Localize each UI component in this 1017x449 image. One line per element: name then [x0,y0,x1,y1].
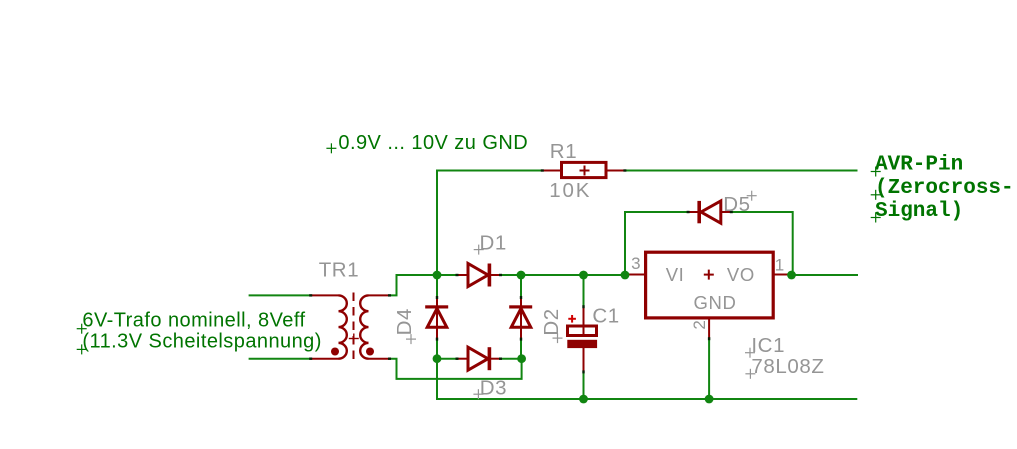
diode D3 cathode bar [488,347,492,370]
wire transformer primary bottom lead [249,358,311,360]
diode D5 triangle [701,201,721,223]
svg-text:10K: 10K [549,179,591,202]
capacitor C1 bottom plate [567,340,597,348]
svg-text:IC1: IC1 [751,334,785,357]
svg-text:(11.3V Scheitelspannung): (11.3V Scheitelspannung) [82,330,321,352]
label D3 origin cross [473,389,483,399]
annotation cross 3 [77,344,87,354]
svg-text:TR1: TR1 [319,259,360,282]
transformer TR1 secondary pin bottom [369,358,390,360]
junction C1 top node [579,271,588,280]
wire D2 column lower green [520,339,522,359]
wire ground rail [436,398,857,400]
wire D3 row right segment [500,358,522,360]
wire D3 row left segment [437,358,458,360]
wire node D down to ground rail [436,359,438,400]
label IC1 origin cross [745,348,755,358]
pin connection ticks [309,169,733,373]
junction node C [517,271,526,280]
diode D5 cathode bar [697,201,701,223]
svg-text:D5: D5 [723,193,750,216]
wire D5 loop left [625,212,688,275]
transformer TR1 primary pin bottom [310,358,338,360]
IC1 pin 3 lead [626,274,646,276]
diode D2 lead through [520,298,522,339]
transformer TR1 core dashed line [353,293,355,362]
op-amp IC1 body [646,252,774,318]
svg-text:R1: R1 [550,140,577,163]
wire D1 row left segment [437,274,458,276]
wire C1 top column [583,275,585,307]
resistor R1 body [562,162,607,177]
svg-text:D2: D2 [540,308,563,335]
wire D4 column upper green [436,275,438,298]
transformer TR1 primary pin top [310,294,338,296]
diode D1 cathode bar [488,264,492,287]
diode D4 triangle [427,309,447,328]
wire IC ground pin down [708,339,710,400]
wire transformer secondary bottom to bridge node B [389,359,521,379]
junction node A [433,271,442,280]
svg-text:C1: C1 [592,305,619,328]
net label cross 2 [871,190,881,200]
svg-text:78L08Z: 78L08Z [751,355,824,378]
junction node D [433,354,442,363]
svg-text:6V-Trafo nominell, 8Veff: 6V-Trafo nominell, 8Veff [82,310,305,332]
net label cross 3 [871,213,881,223]
svg-text:3: 3 [631,254,641,273]
label D2 origin cross [553,333,563,343]
wire D2 column upper green [520,275,522,298]
IC1 pin 1 lead [773,274,791,276]
diode D1 left lead [457,274,468,276]
svg-text:0.9V ... 10V zu GND: 0.9V ... 10V zu GND [338,132,528,154]
diode D2 cathode bar [509,305,532,308]
junction D5 left node [621,271,630,280]
transformer TR1 origin cross [349,334,359,344]
diode D3 triangle [468,347,488,370]
value 78L08Z origin cross [745,369,755,379]
label D5 origin cross [747,191,757,201]
capacitor C1 top plate [568,326,597,336]
wire D4 column lower green [436,339,438,359]
diode D5 right lead [721,211,731,213]
svg-text:VI: VI [666,264,685,285]
svg-text:D3: D3 [480,377,507,400]
svg-text:D4: D4 [393,308,416,335]
diode D4 lead through [436,298,438,339]
wire top horizontal left of R1 [436,170,542,172]
diode D4 cathode bar [425,305,448,308]
wire transformer secondary top to bridge node A [389,275,437,295]
junction VO node [787,271,796,280]
svg-text:GND: GND [694,292,737,313]
wire D1 row right segment [500,274,522,276]
junction IC ground node [705,395,714,404]
diode D2 triangle [511,309,531,328]
annotation cross 2 [77,324,87,334]
capacitor C1 top lead [583,307,585,336]
transformer TR1 primary polarity dot [331,348,339,356]
wire C1 bottom column [583,372,585,400]
svg-text:2: 2 [690,320,709,330]
IC1 pin 2 lead [708,318,710,339]
capacitor C1 bottom lead [583,348,585,372]
diode D3 right lead [491,358,500,360]
svg-text:(Zerocross-: (Zerocross- [875,177,1014,200]
diode D5 left lead [688,211,698,213]
svg-text:1: 1 [775,256,785,275]
resistor R1 origin cross [580,166,590,176]
annotation cross 1 [326,143,336,153]
diode D1 triangle [468,264,488,287]
svg-text:Signal): Signal) [875,200,963,223]
capacitor C1 plus mark [568,315,576,323]
transformer TR1 secondary polarity dot [366,348,374,356]
wire D5 loop right [731,212,793,275]
transformer TR1 primary winding [339,295,347,358]
wire VO output row [792,274,859,276]
wire top horizontal right of R1 [624,170,857,172]
transformer TR1 secondary winding [360,295,368,358]
wire mid row node C to IC pin [521,274,626,276]
net label cross 1 [871,167,881,177]
wire transformer primary top lead [249,294,311,296]
resistor R1 left lead [542,170,561,172]
resistor R1 right lead [606,170,624,172]
label D1 origin cross [474,245,484,255]
svg-text:AVR-Pin: AVR-Pin [875,154,963,177]
IC1 origin cross [704,270,714,280]
label D4 origin cross [406,334,416,344]
transformer TR1 secondary pin top [369,294,390,296]
diode D3 left lead [457,358,468,360]
junction C1 ground node [579,395,588,404]
diode D1 right lead [491,274,500,276]
junction node B [517,354,526,363]
wire top tap vertical [436,170,438,276]
svg-text:D1: D1 [480,232,507,255]
svg-text:VO: VO [727,264,755,285]
